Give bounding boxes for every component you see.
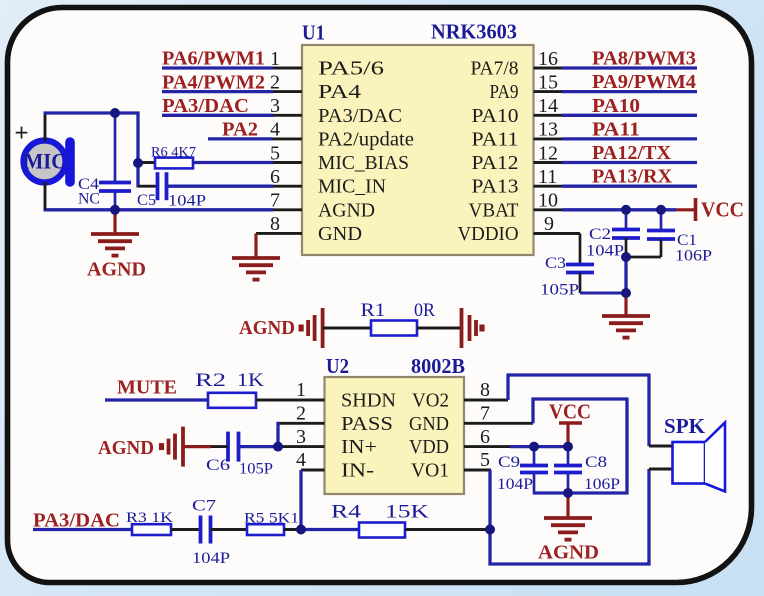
IC U1 NRK3603 (302, 20, 534, 256)
svg-text:IN-: IN- (341, 460, 374, 482)
svg-text:PA2/update: PA2/update (318, 128, 414, 150)
node R5/R4/IN- (296, 525, 306, 535)
svg-text:PA10: PA10 (592, 95, 640, 117)
svg-text:16: 16 (538, 48, 558, 70)
resistor R3 (126, 510, 173, 535)
svg-text:R1: R1 (361, 300, 386, 321)
svg-text:15K: 15K (385, 502, 429, 523)
wire (624, 257, 627, 293)
wire (323, 327, 371, 330)
svg-text:AGND: AGND (318, 199, 375, 221)
svg-text:GND: GND (409, 413, 449, 435)
svg-text:C7: C7 (192, 498, 216, 515)
svg-text:C9: C9 (498, 454, 520, 471)
svg-text:IN+: IN+ (341, 436, 377, 458)
capacitor C8 (554, 447, 620, 493)
wire (562, 185, 697, 188)
wire (506, 374, 509, 401)
wire (162, 114, 273, 117)
node C4 top (110, 108, 120, 118)
wire pin 3 (278, 445, 325, 448)
node C2/C1 bottom (621, 252, 631, 262)
capacitor C3 (534, 233, 627, 298)
svg-text:8: 8 (270, 213, 280, 235)
wire MIC bottom bus (44, 208, 274, 211)
svg-text:104P: 104P (497, 476, 533, 493)
ground GND (U1 pin 8) (254, 233, 257, 258)
svg-text:PA9/PWM4: PA9/PWM4 (592, 71, 696, 93)
wire SPK bottom stub (649, 468, 673, 471)
node C8 top / VCC (563, 442, 573, 452)
svg-text:VO1: VO1 (411, 460, 449, 482)
wire pin 2 (278, 422, 325, 425)
wire (276, 422, 279, 447)
svg-text:NRK3603: NRK3603 (431, 20, 517, 44)
node C4 bottom (110, 205, 120, 215)
wire (534, 491, 629, 494)
node R4 right / VO1 (485, 525, 495, 535)
svg-text:4: 4 (296, 449, 306, 471)
svg-text:MUTE: MUTE (117, 377, 177, 399)
wire (489, 562, 651, 565)
svg-text:11: 11 (538, 166, 557, 188)
wire SPK top stub (649, 445, 673, 448)
svg-text:105P: 105P (239, 461, 273, 478)
svg-text:SPK: SPK (664, 414, 706, 438)
wire top bus (44, 111, 140, 114)
wire (562, 114, 697, 117)
svg-text:R3 1K: R3 1K (126, 510, 173, 526)
wire (299, 470, 302, 530)
svg-text:6: 6 (480, 426, 490, 448)
svg-text:R2: R2 (195, 370, 226, 391)
svg-text:105P: 105P (540, 282, 579, 299)
svg-text:0R: 0R (414, 300, 435, 321)
svg-text:PA7/8: PA7/8 (471, 58, 519, 80)
wire (562, 137, 697, 140)
svg-text:2: 2 (296, 403, 306, 425)
U1 pin 5 (272, 161, 302, 164)
U1 pin 7 (272, 208, 302, 211)
wire VBAT net (562, 208, 676, 211)
wire (256, 399, 325, 402)
U1 pin 3 (272, 114, 302, 117)
capacitor C9 (497, 447, 548, 495)
wire (405, 528, 490, 531)
node C1 top / VBAT (656, 205, 666, 215)
U1 pin 8 (256, 232, 302, 235)
wire pin 5 (VO1) (464, 469, 491, 472)
U1 pin 11 (534, 185, 564, 188)
svg-text:7: 7 (480, 403, 490, 425)
IC U2 8002B (325, 354, 466, 494)
svg-text:PA8/PWM3: PA8/PWM3 (592, 48, 696, 70)
wire (532, 397, 629, 400)
speaker SPK (664, 414, 725, 492)
svg-text:C5: C5 (137, 192, 156, 209)
svg-text:3: 3 (296, 426, 306, 448)
microphone MIC (24, 141, 71, 183)
svg-text:PA10: PA10 (472, 105, 519, 127)
wire (417, 327, 462, 330)
svg-text:15: 15 (538, 71, 558, 93)
wire MIC top (44, 113, 47, 141)
svg-text:AGND: AGND (239, 317, 295, 339)
U1 pin 10 (534, 208, 564, 211)
svg-text:5: 5 (480, 449, 490, 471)
U1 pin 9 (534, 232, 581, 235)
wire pin 7 (GND) (464, 422, 533, 425)
svg-text:104P: 104P (168, 193, 206, 210)
svg-text:PA3/DAC: PA3/DAC (162, 95, 249, 117)
svg-text:PA9: PA9 (490, 81, 519, 103)
svg-text:VDD: VDD (409, 436, 449, 458)
svg-text:8002B: 8002B (411, 354, 465, 378)
wire (488, 530, 491, 566)
node C2 top / VBAT (621, 205, 631, 215)
wire (171, 528, 201, 531)
svg-text:C8: C8 (585, 454, 607, 471)
U1 pin 6 (272, 185, 302, 188)
wire (284, 528, 301, 531)
wire (510, 445, 568, 448)
capacitor C1 (626, 210, 712, 265)
svg-text:PA4: PA4 (318, 81, 361, 103)
wire (507, 373, 651, 376)
wire (488, 470, 491, 530)
svg-text:PA3/DAC: PA3/DAC (318, 105, 402, 127)
svg-text:PA6/PWM1: PA6/PWM1 (162, 48, 265, 70)
power VCC (U2) (549, 400, 591, 447)
svg-text:VCC: VCC (701, 198, 744, 222)
svg-text:VCC: VCC (549, 400, 591, 424)
node C9 top / VDD (529, 442, 539, 452)
power bars AGND left (321, 308, 325, 348)
wire (211, 528, 248, 531)
svg-text:1K: 1K (237, 370, 264, 391)
svg-text:MIC_BIAS: MIC_BIAS (318, 152, 409, 174)
resistor R1 (361, 300, 436, 336)
svg-text:14: 14 (538, 95, 558, 117)
svg-text:PA13/RX: PA13/RX (592, 166, 673, 188)
svg-text:NC: NC (78, 191, 100, 208)
svg-text:104P: 104P (586, 243, 624, 260)
node C6 / IN+ (273, 442, 283, 452)
resistor R6 (138, 145, 273, 169)
svg-text:VO2: VO2 (412, 390, 449, 412)
capacitor C5 (137, 172, 273, 209)
svg-text:PA5/6: PA5/6 (318, 58, 384, 80)
U1 pin 13 (534, 137, 564, 140)
svg-text:13: 13 (538, 119, 558, 141)
resistor R4 (331, 502, 429, 538)
svg-text:R4: R4 (331, 502, 362, 523)
svg-text:U1: U1 (302, 21, 325, 45)
wire (531, 398, 534, 424)
svg-text:106P: 106P (584, 476, 620, 493)
svg-text:AGND: AGND (98, 437, 154, 459)
node C8 bottom / AGND (563, 488, 573, 498)
capacitor C2 (586, 210, 640, 260)
U1 pin 4 (272, 137, 302, 140)
svg-text:C6: C6 (206, 457, 230, 474)
power bars AGND right (460, 308, 464, 348)
svg-text:R6 4K7: R6 4K7 (151, 145, 196, 161)
svg-text:104P: 104P (192, 550, 230, 567)
power bars AGND (C6) (183, 445, 211, 448)
svg-text:MIC: MIC (24, 149, 66, 174)
capacitor C6 (206, 432, 278, 478)
ground (C1/C2/C3) (624, 293, 627, 316)
wire (162, 90, 273, 93)
capacitor C7 (192, 498, 230, 568)
U1 pin 15 (534, 90, 564, 93)
wire (562, 90, 697, 93)
U1 pin 2 (272, 90, 302, 93)
svg-text:PA12: PA12 (472, 152, 519, 174)
wire (162, 66, 273, 69)
node R6 left / C5 (133, 158, 143, 168)
svg-text:AGND: AGND (87, 259, 146, 281)
resistor R5 (244, 511, 299, 536)
wire (562, 66, 697, 69)
svg-text:AGND: AGND (538, 542, 599, 564)
node C3 bottom / ground (621, 288, 631, 298)
svg-text:PA11: PA11 (592, 118, 640, 140)
svg-text:+: + (14, 120, 28, 147)
wire (647, 375, 650, 446)
ground AGND (C8) (566, 493, 569, 518)
wire pin 8 (VO2) (464, 399, 508, 402)
svg-text:MIC_IN: MIC_IN (318, 176, 386, 198)
wire (136, 112, 139, 188)
svg-text:C3: C3 (545, 255, 566, 272)
svg-text:C2: C2 (589, 226, 611, 243)
wire (105, 398, 208, 401)
svg-text:12: 12 (538, 142, 558, 164)
svg-text:106P: 106P (675, 248, 712, 265)
svg-text:PA12/TX: PA12/TX (592, 142, 672, 164)
svg-text:8: 8 (480, 379, 490, 401)
capacitor C4 (78, 113, 131, 210)
svg-text:U2: U2 (326, 354, 349, 378)
svg-text:PASS: PASS (341, 413, 393, 435)
svg-text:10: 10 (538, 190, 558, 212)
U1 pin 16 (534, 67, 564, 70)
svg-text:VDDIO: VDDIO (458, 223, 519, 245)
wire (647, 469, 650, 566)
svg-text:R5 5K1: R5 5K1 (244, 511, 299, 527)
svg-text:PA13: PA13 (472, 176, 519, 198)
svg-text:C1: C1 (677, 232, 697, 249)
wire (208, 137, 273, 140)
svg-text:9: 9 (544, 213, 554, 235)
power VCC (676, 198, 744, 222)
wire MIC bottom (44, 182, 47, 210)
svg-text:PA11: PA11 (472, 128, 519, 150)
svg-text:SHDN: SHDN (341, 390, 396, 412)
wire pin 6 (VDD) (464, 445, 510, 448)
ground AGND (mic) (113, 210, 116, 234)
U1 pin 1 (272, 67, 302, 70)
U1 pin 14 (534, 114, 564, 117)
wire (562, 161, 697, 164)
resistor R2 (195, 370, 264, 408)
wire (33, 528, 132, 531)
svg-text:1: 1 (296, 379, 306, 401)
wire pin 4 (301, 469, 325, 472)
U1 pin 12 (534, 161, 564, 164)
svg-text:GND: GND (318, 223, 362, 245)
svg-text:VBAT: VBAT (469, 199, 519, 221)
wire (625, 399, 628, 495)
wire (301, 528, 359, 531)
